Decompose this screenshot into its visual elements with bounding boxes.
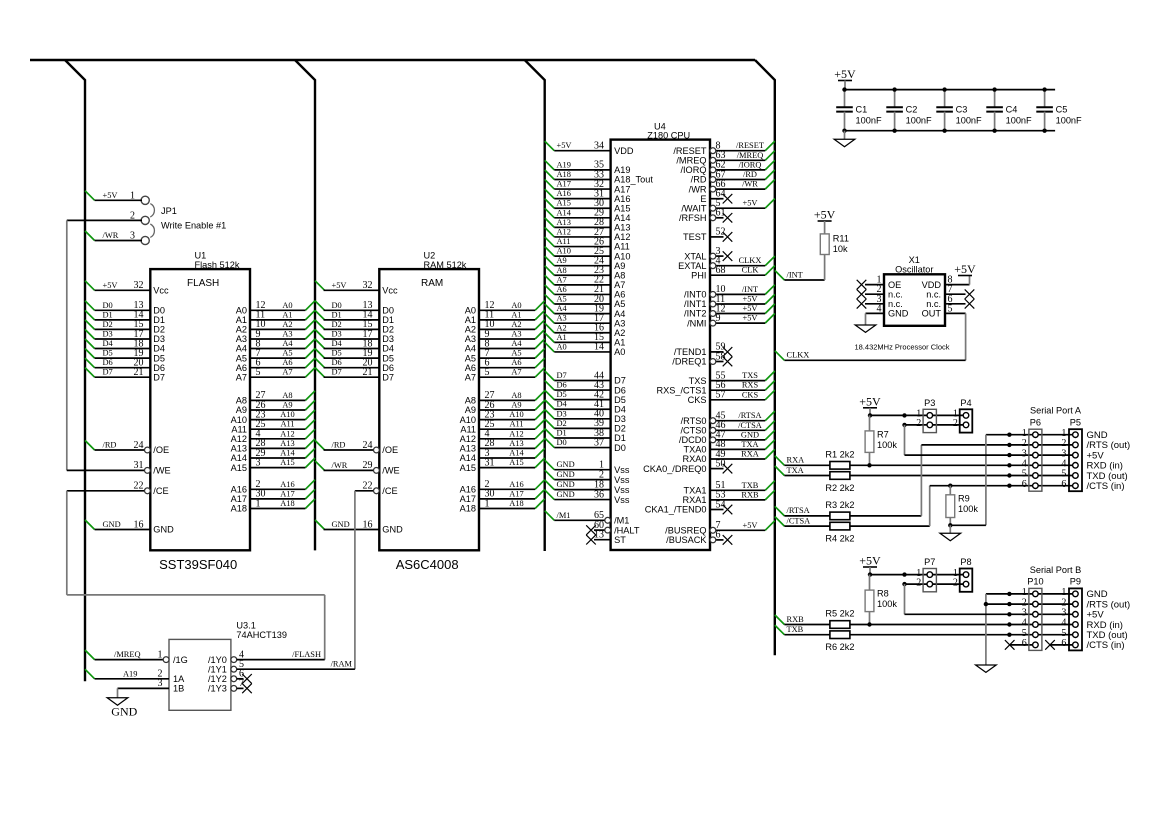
resistor R11 10k bbox=[820, 234, 849, 255]
wire X1 pin 4 GND bbox=[866, 303, 909, 325]
svg-text:2: 2 bbox=[916, 577, 921, 588]
wire U4 pin 39 D2 bbox=[545, 418, 626, 433]
wire U4 pin 23 A8 bbox=[545, 265, 626, 280]
svg-text:D4: D4 bbox=[382, 344, 394, 354]
svg-text:D3: D3 bbox=[153, 334, 165, 344]
wire U4 pin 24 A9 bbox=[545, 256, 626, 271]
svg-text:RAM 512k: RAM 512k bbox=[424, 260, 467, 270]
svg-text:n.c.: n.c. bbox=[926, 289, 941, 299]
wire U2 pin 10 A2 bbox=[465, 319, 545, 334]
jumper JP1 body bbox=[141, 196, 154, 244]
svg-text:32: 32 bbox=[134, 280, 144, 291]
capacitor C4 100nF bbox=[986, 87, 1032, 132]
svg-text:57: 57 bbox=[716, 390, 726, 401]
svg-text:61: 61 bbox=[716, 208, 726, 219]
svg-text:D5: D5 bbox=[103, 349, 113, 358]
wire U2 pin 28 A13 bbox=[460, 438, 545, 453]
svg-text:A7: A7 bbox=[511, 368, 521, 377]
svg-text:A3: A3 bbox=[236, 334, 247, 344]
svg-text:D1: D1 bbox=[103, 310, 113, 319]
wire JP1 pin 3 /WR bbox=[85, 231, 142, 242]
svg-text:/1G: /1G bbox=[173, 655, 188, 665]
wire U4 pin 34 VDD +5V bbox=[545, 141, 634, 156]
wire U2 pin 26 A9 bbox=[465, 400, 545, 415]
wire bus drop to FLASH section bbox=[65, 60, 85, 681]
svg-text:CKA0_/DREQ0: CKA0_/DREQ0 bbox=[643, 464, 706, 474]
svg-text:A12: A12 bbox=[460, 434, 476, 444]
wire U2 pin 22 /CE (from /RAM) bbox=[355, 481, 398, 496]
svg-text:R3 2k2: R3 2k2 bbox=[825, 500, 854, 510]
ground at U3.1 1B bbox=[107, 698, 137, 719]
no-connect U4 pin 6 /BUSACK bbox=[666, 530, 732, 545]
svg-text:D6: D6 bbox=[103, 358, 113, 367]
svg-text:C4: C4 bbox=[1006, 104, 1018, 114]
wire U4 pin 1 Vss GND bbox=[545, 460, 630, 475]
svg-text:/M1: /M1 bbox=[614, 516, 629, 526]
svg-text:D4: D4 bbox=[103, 339, 114, 348]
svg-text:D5: D5 bbox=[557, 390, 567, 399]
svg-text:RXS_/CTS1: RXS_/CTS1 bbox=[656, 385, 706, 395]
svg-text:D6: D6 bbox=[614, 385, 626, 395]
svg-text:RXS: RXS bbox=[742, 381, 759, 390]
svg-text:A3: A3 bbox=[511, 330, 521, 339]
svg-text:n.c.: n.c. bbox=[888, 299, 903, 309]
wire JP1 pin 1 +5V bbox=[85, 191, 142, 202]
svg-text:A10: A10 bbox=[280, 410, 294, 419]
no-connect U4 pin 3 XTAL bbox=[684, 246, 732, 261]
svg-text:21: 21 bbox=[363, 367, 373, 378]
wire U4 pin 17 A3 bbox=[545, 313, 626, 328]
svg-text:A14: A14 bbox=[509, 449, 524, 458]
svg-text:D5: D5 bbox=[332, 349, 342, 358]
svg-text:/RTSA: /RTSA bbox=[787, 506, 810, 515]
wire U2 pin 16 GND bbox=[315, 519, 403, 534]
wire U2 pin 5 A7 bbox=[465, 367, 545, 382]
svg-text:A16: A16 bbox=[280, 480, 294, 489]
wire U4 pin 4 EXTAL -> CLKX bbox=[678, 256, 775, 271]
svg-text:/CTS (in): /CTS (in) bbox=[1087, 481, 1125, 492]
svg-text:R1 2k2: R1 2k2 bbox=[825, 449, 854, 459]
svg-text:A16: A16 bbox=[460, 485, 476, 495]
wire U2 pin 7 A5 bbox=[465, 348, 545, 363]
svg-text:C2: C2 bbox=[906, 104, 918, 114]
svg-text:100k: 100k bbox=[877, 599, 897, 609]
svg-text:5: 5 bbox=[256, 367, 261, 378]
wire U4 pin 46 /CTS0 -> /CTSA bbox=[680, 420, 774, 435]
svg-text:C1: C1 bbox=[856, 104, 868, 114]
svg-text:D0: D0 bbox=[614, 443, 626, 453]
svg-text:A11: A11 bbox=[460, 424, 476, 434]
svg-text:1: 1 bbox=[130, 191, 135, 202]
svg-text:A2: A2 bbox=[614, 328, 625, 338]
wire U4 pin 14 A0 bbox=[545, 342, 626, 357]
wire U4 pin 42 D5 bbox=[545, 389, 626, 404]
svg-text:A19: A19 bbox=[557, 160, 571, 169]
svg-text:/CE: /CE bbox=[382, 486, 397, 496]
svg-text:GND: GND bbox=[888, 309, 909, 319]
connector P4 body bbox=[953, 398, 972, 433]
svg-text:7: 7 bbox=[239, 678, 244, 689]
wire U4 pin 31 A16 bbox=[545, 188, 631, 203]
svg-text:D3: D3 bbox=[614, 414, 626, 424]
wire jumper P7 pin2 to connector +5V pin3 bbox=[904, 584, 906, 614]
wire U1 pin 15 D2 bbox=[85, 319, 165, 334]
svg-text:5: 5 bbox=[485, 367, 490, 378]
svg-text:Vcc: Vcc bbox=[382, 286, 398, 296]
svg-text:A10: A10 bbox=[460, 415, 476, 425]
svg-text:A1: A1 bbox=[282, 310, 292, 319]
svg-text:54: 54 bbox=[716, 499, 726, 510]
svg-text:Serial Port A: Serial Port A bbox=[1030, 406, 1082, 416]
connector P5 body bbox=[1061, 417, 1082, 491]
no-connect X1 pin 2 n.c. bbox=[857, 284, 903, 299]
ground at R9 bbox=[940, 525, 961, 540]
svg-text:+5V: +5V bbox=[743, 304, 758, 313]
wire U3.1 pin 4 /1Y0 /FLASH bbox=[208, 649, 325, 664]
wire U4 pin 55 TXS -> TXS bbox=[689, 370, 775, 385]
svg-text:A2: A2 bbox=[282, 320, 292, 329]
svg-text:/IORQ: /IORQ bbox=[739, 160, 762, 169]
svg-text:100nF: 100nF bbox=[956, 115, 982, 125]
svg-text:36: 36 bbox=[594, 489, 604, 500]
svg-text:A9: A9 bbox=[236, 405, 247, 415]
svg-text:D2: D2 bbox=[382, 325, 394, 335]
wire U2 pin 12 A0 bbox=[465, 300, 545, 315]
svg-text:D7: D7 bbox=[103, 368, 113, 377]
svg-text:GND: GND bbox=[332, 520, 350, 529]
svg-text:A8: A8 bbox=[465, 396, 476, 406]
wire U4 pin 10 /INT0 -> /INT bbox=[684, 284, 775, 299]
wire U4 pin 40 D3 bbox=[545, 409, 626, 424]
svg-text:R9: R9 bbox=[958, 494, 970, 504]
svg-text:/CE: /CE bbox=[153, 486, 168, 496]
svg-text:CLK: CLK bbox=[742, 266, 759, 275]
svg-text:AS6C4008: AS6C4008 bbox=[396, 557, 459, 572]
svg-text:10k: 10k bbox=[833, 244, 848, 254]
wire U2 pin 15 D2 bbox=[315, 319, 394, 334]
svg-text:RXB: RXB bbox=[787, 615, 805, 624]
wire U1 pin 6 A6 bbox=[236, 358, 315, 373]
svg-text:A14: A14 bbox=[557, 208, 572, 217]
svg-text:6: 6 bbox=[1022, 638, 1027, 649]
svg-text:D1: D1 bbox=[153, 315, 165, 325]
svg-text:A6: A6 bbox=[511, 358, 521, 367]
wire U4 pin 62 /IORQ -> /IORQ bbox=[680, 160, 774, 175]
wire U2 pin 31 A15 bbox=[460, 457, 545, 472]
wire U1 pin 20 D6 bbox=[85, 358, 165, 373]
svg-text:A17: A17 bbox=[231, 494, 247, 504]
svg-text:/MREQ: /MREQ bbox=[114, 650, 141, 659]
svg-text:A11: A11 bbox=[557, 237, 571, 246]
svg-text:A13: A13 bbox=[557, 218, 571, 227]
svg-text:D4: D4 bbox=[332, 339, 343, 348]
wire U1 pin 29 A14 bbox=[231, 448, 315, 463]
wire U1 pin 5 A7 bbox=[236, 367, 315, 382]
svg-text:37: 37 bbox=[594, 437, 604, 448]
svg-text:A8: A8 bbox=[511, 391, 521, 400]
svg-text:A10: A10 bbox=[557, 247, 571, 256]
svg-text:A4: A4 bbox=[465, 344, 476, 354]
svg-text:GND: GND bbox=[382, 525, 403, 535]
svg-text:A6: A6 bbox=[465, 363, 476, 373]
svg-text:32: 32 bbox=[363, 280, 373, 291]
svg-text:P4: P4 bbox=[960, 398, 971, 408]
svg-text:A16: A16 bbox=[509, 480, 523, 489]
wire U4 pin 8 /RESET -> /RESET bbox=[673, 141, 774, 156]
wire U1 pin 19 D5 bbox=[85, 348, 165, 363]
svg-text:A2: A2 bbox=[557, 323, 567, 332]
wire U4 pin 56 RXS_/CTS1 -> RXS bbox=[656, 380, 774, 395]
svg-text:A4: A4 bbox=[557, 304, 568, 313]
resistor R8 100k bbox=[865, 575, 897, 627]
svg-text:RXB: RXB bbox=[741, 490, 759, 499]
resistor R9 100k bbox=[946, 484, 978, 528]
no-connect X1 pin 6 n.c. bbox=[926, 294, 974, 309]
svg-text:A7: A7 bbox=[557, 275, 567, 284]
wire U4 pin 28 A13 bbox=[545, 217, 631, 232]
wire U4 pin 11 /INT1 -> +5V bbox=[684, 294, 775, 309]
wire U3.1 pin 1 /1G /MREQ bbox=[85, 649, 188, 664]
svg-text:GND: GND bbox=[111, 705, 137, 719]
svg-text:A4: A4 bbox=[236, 344, 247, 354]
svg-text:A2: A2 bbox=[465, 325, 476, 335]
svg-text:/BUSACK: /BUSACK bbox=[666, 535, 707, 545]
svg-text:/INT2: /INT2 bbox=[684, 309, 706, 319]
svg-text:5: 5 bbox=[948, 303, 953, 314]
wire U1 pin 8 A4 bbox=[236, 338, 315, 353]
svg-text:P5: P5 bbox=[1070, 417, 1081, 427]
power +5V at serial port B bbox=[859, 554, 881, 575]
no-connect U4 pin 50 CKA0_/DREQ0 bbox=[643, 458, 732, 473]
wire U4 pin 41 D4 bbox=[545, 399, 626, 414]
wire /RTSA from bus through R3 to connector /RTS bbox=[775, 445, 1010, 520]
svg-text:31: 31 bbox=[134, 460, 144, 471]
no-connect P10 pin 6 bbox=[1005, 640, 1036, 650]
svg-text:D7: D7 bbox=[382, 372, 394, 382]
svg-text:100k: 100k bbox=[958, 504, 978, 514]
wire U4 pin 45 /RTS0 -> /RTSA bbox=[681, 411, 775, 426]
svg-text:A12: A12 bbox=[557, 227, 571, 236]
svg-text:A6: A6 bbox=[282, 358, 292, 367]
svg-text:A9: A9 bbox=[282, 401, 292, 410]
wire U1 pin 28 A13 bbox=[231, 438, 315, 453]
svg-text:24: 24 bbox=[134, 440, 144, 451]
svg-text:+5V: +5V bbox=[103, 281, 118, 290]
wire connector GND pin1 and /RTS pin2 to ground bbox=[984, 594, 1010, 665]
capacitor C5 100nF bbox=[1036, 87, 1082, 132]
wire ground rail bottom bbox=[845, 130, 1056, 132]
wire U2 pin 17 D3 bbox=[315, 329, 394, 344]
connector P8 body bbox=[953, 557, 972, 592]
svg-text:/WE: /WE bbox=[382, 466, 399, 476]
wire U4 pin 12 /INT2 -> +5V bbox=[684, 303, 775, 318]
svg-text:29: 29 bbox=[363, 460, 373, 471]
svg-text:R5 2k2: R5 2k2 bbox=[825, 609, 854, 619]
svg-text:RAM: RAM bbox=[421, 278, 443, 289]
wire U4 pin 68 PHI -> CLK bbox=[691, 265, 775, 280]
wire U2 pin 29 /WE bbox=[315, 460, 400, 475]
wire U4 pin 36 Vss GND bbox=[545, 489, 630, 504]
svg-text:A8: A8 bbox=[236, 396, 247, 406]
svg-text:A6: A6 bbox=[557, 285, 567, 294]
svg-text:/RFSH: /RFSH bbox=[679, 213, 707, 223]
svg-text:A15: A15 bbox=[614, 203, 630, 213]
svg-text:18.432MHz Processor Clock: 18.432MHz Processor Clock bbox=[854, 343, 949, 352]
wire U4 pin 65 /M1 bbox=[545, 510, 630, 525]
wire U4 pin 21 A6 bbox=[545, 284, 626, 299]
svg-text:/DCD0: /DCD0 bbox=[679, 435, 707, 445]
connector P6 body bbox=[1022, 417, 1042, 491]
labels P5 pin functions bbox=[1087, 430, 1131, 492]
svg-text:A14: A14 bbox=[460, 453, 476, 463]
svg-text:A2: A2 bbox=[236, 325, 247, 335]
wire bus drop to CPU left section bbox=[525, 60, 545, 551]
wire U4 pin 35 A19 bbox=[545, 160, 631, 175]
svg-text:GND: GND bbox=[103, 520, 121, 529]
wire U2 pin 19 D5 bbox=[315, 348, 394, 363]
svg-text:A2: A2 bbox=[511, 320, 521, 329]
svg-text:A11: A11 bbox=[231, 424, 247, 434]
svg-text:D4: D4 bbox=[614, 404, 626, 414]
svg-text:A15: A15 bbox=[280, 458, 294, 467]
svg-text:D5: D5 bbox=[382, 353, 394, 363]
wire U4 pin 48 TXA0 -> TXA bbox=[684, 439, 775, 454]
svg-text:/1Y1: /1Y1 bbox=[208, 664, 227, 674]
svg-text:R4 2k2: R4 2k2 bbox=[825, 534, 854, 544]
svg-text:/RTSA: /RTSA bbox=[738, 411, 761, 420]
wire U1 pin 4 A12 bbox=[231, 429, 315, 444]
wire U2 pin 3 A14 bbox=[460, 448, 545, 463]
svg-text:A1: A1 bbox=[511, 310, 521, 319]
svg-text:A6: A6 bbox=[236, 363, 247, 373]
svg-text:A18: A18 bbox=[231, 504, 247, 514]
svg-text:A0: A0 bbox=[465, 306, 476, 316]
svg-text:100nF: 100nF bbox=[1006, 115, 1032, 125]
svg-text:A14: A14 bbox=[614, 213, 630, 223]
svg-text:A9: A9 bbox=[511, 401, 521, 410]
svg-text:R7: R7 bbox=[877, 430, 889, 440]
svg-text:/RD: /RD bbox=[332, 441, 346, 450]
svg-text:A10: A10 bbox=[231, 415, 247, 425]
svg-text:D5: D5 bbox=[153, 353, 165, 363]
no-connect X1 pin 7 n.c. bbox=[926, 284, 974, 299]
svg-text:A15: A15 bbox=[231, 463, 247, 473]
wire U1 pin 26 A9 bbox=[236, 400, 315, 415]
svg-text:A17: A17 bbox=[460, 494, 476, 504]
svg-text:C5: C5 bbox=[1056, 104, 1068, 114]
wire U4 pin 44 D7 bbox=[545, 370, 626, 385]
svg-text:A5: A5 bbox=[511, 349, 521, 358]
svg-text:A15: A15 bbox=[557, 199, 571, 208]
svg-text:/HALT: /HALT bbox=[614, 525, 640, 535]
no-connect U4 pin 64 E bbox=[700, 189, 732, 204]
svg-text:P3: P3 bbox=[924, 398, 935, 408]
svg-text:3: 3 bbox=[158, 678, 163, 689]
no-connect U4 pin 52 TEST bbox=[683, 227, 732, 242]
wire U4 pin 15 A1 bbox=[545, 332, 626, 347]
wire U1 pin 22 /CE (from /FLASH) bbox=[67, 481, 169, 496]
no-connect X1 pin 3 n.c. bbox=[857, 294, 903, 309]
svg-text:VDD: VDD bbox=[922, 280, 942, 290]
svg-text:D2: D2 bbox=[614, 424, 626, 434]
IC X1 Oscillator body bbox=[884, 274, 945, 326]
capacitor C1 100nF bbox=[836, 87, 882, 132]
svg-text:D3: D3 bbox=[332, 330, 342, 339]
svg-text:A0: A0 bbox=[236, 306, 247, 316]
svg-text:TEST: TEST bbox=[683, 232, 707, 242]
svg-text:100nF: 100nF bbox=[1056, 115, 1082, 125]
wire X1 pin 8 VDD +5V bbox=[922, 262, 976, 290]
wire connector rows to P10/P9 with junctions bbox=[1007, 592, 1075, 637]
svg-text:A7: A7 bbox=[465, 372, 476, 382]
IC U1 FLASH body bbox=[150, 269, 250, 550]
wire U1 pin 32 Vcc bbox=[85, 280, 169, 295]
wire U1 pin 16 GND bbox=[85, 519, 174, 534]
svg-text:A1: A1 bbox=[614, 338, 625, 348]
no-connect X1 pin 1 OE bbox=[857, 275, 902, 290]
svg-text:A8: A8 bbox=[557, 266, 567, 275]
svg-text:22: 22 bbox=[134, 481, 144, 492]
svg-text:RXA1: RXA1 bbox=[682, 495, 706, 505]
wire connector GND pin1 down to ground bbox=[950, 435, 1009, 526]
svg-text:A9: A9 bbox=[465, 405, 476, 415]
wire /INT from bus to R11 bbox=[775, 255, 825, 281]
wire U1 pin 1 A18 bbox=[231, 498, 315, 513]
svg-text:/1Y0: /1Y0 bbox=[208, 655, 227, 665]
svg-text:A16: A16 bbox=[231, 485, 247, 495]
svg-text:A7: A7 bbox=[614, 280, 625, 290]
svg-text:Oscillator: Oscillator bbox=[895, 265, 933, 275]
svg-text:4: 4 bbox=[877, 303, 882, 314]
svg-text:D3: D3 bbox=[103, 330, 113, 339]
svg-text:/OE: /OE bbox=[153, 445, 169, 455]
svg-text:/RTS0: /RTS0 bbox=[681, 416, 707, 426]
IC U3.1 74AHCT139 body bbox=[169, 639, 231, 710]
wire /FLASH net from U1 /CE to U3.1 /1Y0 bbox=[67, 491, 325, 660]
svg-text:D2: D2 bbox=[332, 320, 342, 329]
svg-text:/DREQ1: /DREQ1 bbox=[672, 357, 706, 367]
svg-text:D6: D6 bbox=[153, 363, 165, 373]
wire U4 pin 47 /DCD0 -> GND bbox=[679, 430, 775, 445]
svg-text:D4: D4 bbox=[153, 344, 165, 354]
svg-text:GND: GND bbox=[557, 490, 575, 499]
svg-text:A19: A19 bbox=[123, 669, 137, 678]
svg-text:/RESET: /RESET bbox=[673, 146, 707, 156]
svg-text:D0: D0 bbox=[382, 306, 394, 316]
svg-text:D0: D0 bbox=[153, 306, 165, 316]
wire U1 pin 25 A11 bbox=[231, 419, 315, 434]
wire U2 pin 13 D0 bbox=[315, 300, 394, 315]
svg-text:A17: A17 bbox=[509, 489, 523, 498]
svg-text:/BUSREQ: /BUSREQ bbox=[665, 526, 706, 536]
wire bus horizontal top rail bbox=[30, 59, 755, 61]
svg-text:+5V: +5V bbox=[814, 208, 836, 222]
svg-text:Vss: Vss bbox=[614, 465, 630, 475]
svg-text:A5: A5 bbox=[282, 349, 292, 358]
svg-text:JP1: JP1 bbox=[161, 206, 177, 216]
svg-text:+5V: +5V bbox=[743, 199, 758, 208]
svg-text:P10: P10 bbox=[1027, 577, 1043, 587]
svg-text:+5V: +5V bbox=[743, 295, 758, 304]
wire U2 pin 14 D1 bbox=[315, 310, 394, 325]
svg-text:/MREQ: /MREQ bbox=[676, 156, 706, 166]
svg-text:A14: A14 bbox=[231, 453, 247, 463]
svg-text:A17: A17 bbox=[614, 184, 630, 194]
wire U4 pin 29 A14 bbox=[545, 208, 631, 223]
svg-text:/INT: /INT bbox=[742, 285, 758, 294]
svg-text:31: 31 bbox=[485, 457, 495, 468]
svg-text:D2: D2 bbox=[153, 325, 165, 335]
